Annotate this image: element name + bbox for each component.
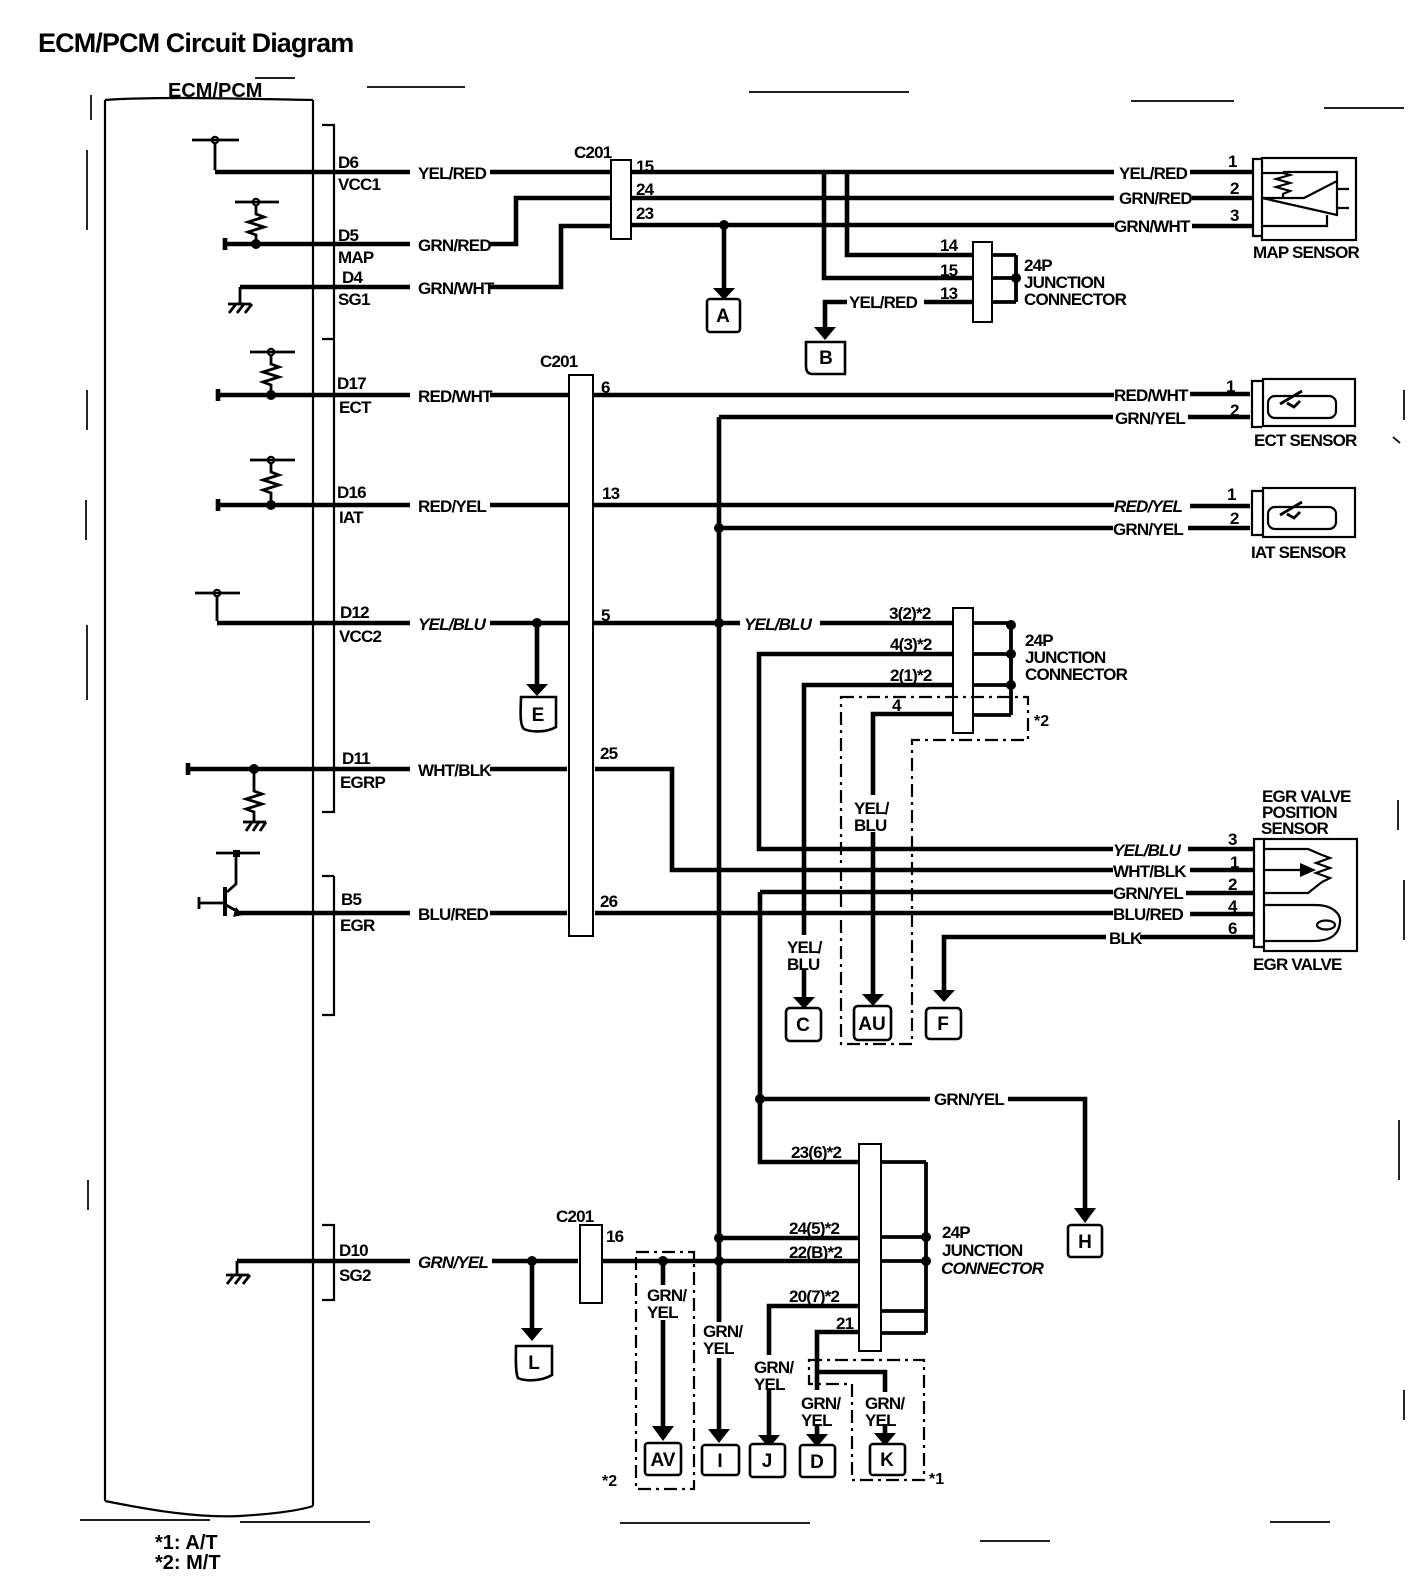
svg-text:RED/YEL: RED/YEL (1114, 497, 1182, 516)
wire 4(3)*2 YEL/BLU to EGR pin 3 (759, 654, 1253, 849)
ground SG2 (226, 1261, 250, 1284)
node E junction (532, 618, 542, 628)
svg-text:6: 6 (1228, 919, 1237, 938)
junction connector 24P (bottom) (859, 1144, 881, 1351)
svg-text:*2: M/T: *2: M/T (155, 1552, 221, 1574)
svg-text:SENSOR: SENSOR (1261, 819, 1329, 838)
junction bus right side (top) (992, 255, 1016, 302)
svg-text:24(5)*2: 24(5)*2 (789, 1219, 840, 1238)
svg-text:YEL/BLU: YEL/BLU (744, 615, 813, 634)
wire BLU/RED right of C201 pin 26 (595, 913, 1253, 914)
svg-text:1: 1 (1226, 377, 1235, 396)
svg-text:1: 1 (1230, 853, 1239, 872)
EGR valve solenoid (1264, 905, 1340, 941)
power symbol VCC2 (195, 593, 240, 621)
wire D17 RED/WHT (218, 389, 1250, 401)
connector box E (521, 697, 556, 731)
svg-text:C201: C201 (574, 143, 612, 162)
wire 2(1)*2 YEL/BLU down to C (804, 685, 955, 999)
EGR potentiometer wiper arrow (1264, 869, 1300, 871)
svg-text:*1: *1 (929, 1471, 944, 1488)
svg-text:GRN/WHT: GRN/WHT (418, 279, 495, 298)
svg-text:BLU/RED: BLU/RED (418, 905, 488, 924)
IAT sensor box (1263, 488, 1355, 537)
svg-text:SG2: SG2 (339, 1266, 371, 1285)
connector box D (800, 1445, 835, 1477)
wire GRN/RED right of C201 (629, 196, 1252, 201)
connector box K (870, 1444, 905, 1475)
svg-text:CONNECTOR: CONNECTOR (1025, 665, 1128, 684)
svg-text:J: J (762, 1451, 773, 1472)
node AV junction (658, 1256, 668, 1266)
svg-text:4(3)*2: 4(3)*2 (890, 635, 932, 654)
connector box AV (645, 1443, 681, 1475)
junction connector 24P (middle) (953, 608, 973, 733)
svg-text:ECM/PCM: ECM/PCM (168, 80, 262, 102)
svg-text:YEL/BLU: YEL/BLU (418, 615, 487, 634)
svg-text:RED/YEL: RED/YEL (418, 497, 486, 516)
node A junction on GRN/WHT (719, 220, 729, 230)
svg-text:*1: A/T: *1: A/T (155, 1532, 218, 1554)
wire 21 to D and K (817, 1332, 885, 1392)
MAP sensor internal resistor (1262, 172, 1337, 198)
connector box AU (854, 1006, 891, 1040)
wire D12 YEL/BLU (217, 621, 955, 626)
svg-text:4: 4 (892, 696, 902, 715)
svg-text:23(6)*2: 23(6)*2 (791, 1143, 842, 1162)
wire arrow to A (722, 227, 727, 288)
svg-text:H: H (1078, 1232, 1092, 1253)
power symbol VCC1 (192, 140, 239, 170)
ECT sensor connector bracket (1252, 381, 1262, 427)
svg-text:MAP SENSOR: MAP SENSOR (1253, 243, 1360, 262)
svg-text:CONNECTOR: CONNECTOR (941, 1259, 1045, 1278)
connector box C (786, 1008, 821, 1041)
wire arrow to D (815, 1424, 820, 1436)
svg-text:JUNCTION: JUNCTION (942, 1241, 1023, 1260)
svg-text:20(7)*2: 20(7)*2 (789, 1287, 840, 1306)
svg-text:C201: C201 (540, 352, 578, 371)
connector box I (702, 1445, 739, 1475)
svg-text:22(B)*2: 22(B)*2 (789, 1243, 842, 1262)
svg-text:L: L (528, 1353, 540, 1374)
svg-text:2: 2 (1230, 401, 1239, 420)
svg-text:YEL/BLU: YEL/BLU (1113, 841, 1182, 860)
wire D5 GRN/RED (225, 198, 613, 250)
EGR valve box (1264, 839, 1357, 951)
svg-text:IAT: IAT (339, 508, 364, 527)
dash-dot box *1 (around K) (809, 1360, 924, 1480)
svg-text:WHT/BLK: WHT/BLK (418, 761, 492, 780)
svg-text:GRN/YEL: GRN/YEL (1113, 520, 1183, 539)
svg-text:D16: D16 (337, 483, 366, 502)
svg-text:4: 4 (1228, 897, 1238, 916)
svg-text:2: 2 (1230, 509, 1239, 528)
svg-text:13: 13 (940, 284, 958, 303)
wire arrow to AV (661, 1261, 666, 1427)
wire junction pin 13 YEL/RED to B (825, 302, 975, 328)
junction bus right side (middle) (973, 623, 1011, 715)
svg-text:15: 15 (940, 261, 958, 280)
resistor R2 (ECT pull-up) (250, 352, 295, 395)
connector box B (806, 342, 845, 374)
svg-text:D11: D11 (342, 749, 370, 768)
svg-text:F: F (937, 1014, 949, 1035)
svg-text:24: 24 (636, 180, 655, 199)
wire arrow to L (530, 1263, 535, 1329)
svg-text:EGR: EGR (340, 916, 375, 935)
svg-text:AV: AV (651, 1450, 676, 1471)
wire arrow to K (883, 1424, 888, 1435)
connector box F (926, 1008, 961, 1039)
svg-text:D12: D12 (340, 603, 369, 622)
connector C201 (bottom) (580, 1225, 602, 1303)
svg-text:WHT/BLK: WHT/BLK (1113, 862, 1187, 881)
svg-text:YEL/RED: YEL/RED (1119, 164, 1188, 183)
svg-text:GRN/WHT: GRN/WHT (1114, 217, 1191, 236)
svg-text:D17: D17 (337, 374, 366, 393)
resistor R1 (MAP pull-up) (235, 202, 279, 244)
svg-text:6: 6 (601, 378, 610, 397)
wire GRN/YEL to H (760, 1099, 1085, 1209)
svg-text:D: D (810, 1452, 824, 1473)
ground SG1 (228, 287, 252, 313)
svg-text:14: 14 (940, 236, 959, 255)
node GRN/YEL bus to IAT pin 2 (714, 523, 724, 533)
ECM/PCM box (105, 98, 313, 1516)
wire B5 BLU/RED (240, 911, 567, 916)
node resistor R4 junction (249, 764, 259, 774)
svg-text:*2: *2 (602, 1473, 617, 1490)
MAP sensor internal op-amp (1262, 181, 1349, 215)
MAP sensor connector bracket (1253, 159, 1263, 236)
svg-text:25: 25 (600, 744, 618, 763)
svg-text:D10: D10 (339, 1241, 368, 1260)
wire WHT/BLK right of C201 pin 25 (595, 769, 1253, 870)
svg-text:VCC2: VCC2 (339, 627, 381, 646)
svg-text:E: E (532, 705, 545, 726)
svg-text:16: 16 (606, 1227, 624, 1246)
wire D6 YEL/RED (215, 170, 1252, 175)
GRN/YEL bus vertical (717, 417, 722, 1322)
svg-text:GRN/RED: GRN/RED (418, 236, 491, 255)
svg-text:BLU: BLU (854, 816, 887, 835)
wire GRN/WHT right of C201 (629, 225, 1252, 226)
svg-text:YEL: YEL (647, 1303, 678, 1322)
node GRN/YEL H branch (755, 1094, 765, 1104)
svg-text:5: 5 (601, 606, 610, 625)
wire YEL/RED branch to junction pin 15 (824, 172, 975, 278)
svg-text:D6: D6 (338, 153, 358, 172)
wire D4 GRN/WHT (240, 226, 613, 287)
svg-text:AU: AU (858, 1014, 885, 1035)
svg-text:YEL: YEL (703, 1339, 734, 1358)
svg-text:13: 13 (602, 484, 620, 503)
svg-text:C201: C201 (556, 1207, 594, 1226)
svg-text:EGR VALVE: EGR VALVE (1253, 955, 1342, 974)
ECT sensor thermistor (1268, 396, 1336, 418)
svg-text:26: 26 (600, 892, 618, 911)
ECT sensor box (1263, 379, 1355, 426)
node YEL/BLU bus crossing (714, 618, 724, 628)
svg-text:GRN/YEL: GRN/YEL (1115, 409, 1185, 428)
MAP sensor pin3 internal wire (1262, 215, 1327, 226)
svg-text:2: 2 (1228, 875, 1237, 894)
svg-text:VCC1: VCC1 (338, 175, 380, 194)
wire GRN/YEL to EGR pin 2 (760, 892, 1253, 893)
connector box L (516, 1346, 552, 1380)
svg-text:15: 15 (636, 157, 654, 176)
wire 20(7)*2 down to J (769, 1306, 861, 1436)
wire YEL/RED branch to junction pin 14 (847, 172, 975, 255)
svg-text:GRN/YEL: GRN/YEL (934, 1090, 1004, 1109)
svg-text:YEL: YEL (754, 1375, 785, 1394)
wire GRN/YEL vertical to junction 23(6) (760, 892, 861, 1162)
svg-text:EGRP: EGRP (340, 773, 385, 792)
svg-text:CONNECTOR: CONNECTOR (1024, 290, 1127, 309)
svg-text:3(2)*2: 3(2)*2 (889, 604, 931, 623)
svg-text:YEL/RED: YEL/RED (849, 293, 918, 312)
svg-text:YEL: YEL (865, 1411, 896, 1430)
svg-text:SG1: SG1 (338, 290, 370, 309)
svg-text:BLU: BLU (787, 955, 820, 974)
wire GRN/YEL 22(B)*2 (602, 1259, 861, 1264)
svg-text:D4: D4 (342, 268, 363, 287)
svg-text:RED/WHT: RED/WHT (418, 387, 493, 406)
svg-text:MAP: MAP (338, 248, 374, 267)
junction connector 24P (top) (973, 242, 992, 322)
svg-text:GRN/YEL: GRN/YEL (418, 1253, 488, 1272)
wire D16 RED/YEL (218, 499, 1250, 511)
svg-text:21: 21 (836, 1314, 854, 1333)
node bus to 24(5)*2 (714, 1233, 724, 1243)
svg-text:GRN/RED: GRN/RED (1119, 189, 1192, 208)
wire 24(5)*2 (719, 1236, 861, 1241)
wire BLK to F (944, 937, 1253, 991)
pin bracket rail (322, 125, 334, 1300)
svg-text:ECT SENSOR: ECT SENSOR (1254, 431, 1357, 450)
node bus crossing SG2 (714, 1256, 724, 1266)
svg-text:1: 1 (1228, 152, 1237, 171)
svg-text:ECT: ECT (339, 398, 372, 417)
svg-text:I: I (717, 1451, 722, 1472)
connector box H (1068, 1225, 1102, 1257)
connector C201 (middle tall) (569, 375, 593, 936)
svg-text:GRN/YEL: GRN/YEL (1113, 884, 1183, 903)
wire GRN/YEL to ECT pin 2 (719, 415, 1250, 420)
svg-text:YEL/RED: YEL/RED (418, 164, 487, 183)
dash-dot box *2 (M/T section middle) (841, 697, 1028, 1044)
connector box A (707, 299, 740, 332)
junction bus right side (bottom) (881, 1162, 926, 1333)
svg-text:K: K (880, 1450, 894, 1471)
svg-text:1: 1 (1227, 485, 1236, 504)
svg-text:BLK: BLK (1109, 929, 1143, 948)
transistor Q1 collector supply (216, 853, 260, 892)
svg-text:*2: *2 (1034, 713, 1049, 730)
EGR sensor connector bracket (1254, 839, 1263, 947)
wire GRN/YEL to IAT pin 2 (719, 526, 1250, 531)
svg-text:3: 3 (1230, 206, 1239, 225)
wire arrow to I (GRN/YEL bus end) (717, 1261, 722, 1430)
dash-dot box *2 (around AV) (636, 1252, 694, 1489)
wire D11 WHT/BLK (188, 763, 567, 775)
EGR position sensor potentiometer (1264, 849, 1330, 893)
connector box J (750, 1444, 785, 1477)
svg-text:B5: B5 (341, 890, 361, 909)
connector C201 (top) (611, 160, 631, 239)
wire arrow to E (535, 625, 540, 685)
MAP sensor box (1262, 158, 1356, 240)
IAT sensor thermistor (1268, 507, 1336, 529)
node L junction (527, 1256, 537, 1266)
wire D10 GRN/YEL (SG2) (237, 1259, 578, 1264)
svg-text:RED/WHT: RED/WHT (1114, 386, 1189, 405)
svg-text:23: 23 (636, 204, 654, 223)
resistor R3 (IAT pull-up) (250, 460, 295, 505)
svg-text:D5: D5 (338, 226, 358, 245)
svg-text:IAT SENSOR: IAT SENSOR (1251, 543, 1346, 562)
svg-text:2(1)*2: 2(1)*2 (890, 666, 932, 685)
svg-text:ECM/PCM Circuit Diagram: ECM/PCM Circuit Diagram (38, 28, 353, 58)
transistor Q1 (223, 887, 227, 916)
svg-text:24P: 24P (942, 1223, 970, 1242)
svg-text:A: A (716, 306, 730, 327)
svg-text:B: B (819, 348, 833, 369)
IAT sensor connector bracket (1252, 491, 1262, 535)
svg-text:C: C (796, 1015, 810, 1036)
svg-text:3: 3 (1228, 830, 1237, 849)
wire 4 YEL/BLU down to AU (873, 714, 955, 996)
ground below R4 (243, 822, 266, 831)
svg-text:BLU/RED: BLU/RED (1113, 905, 1183, 924)
resistor R4 (EGRP) (246, 769, 262, 822)
svg-text:2: 2 (1230, 179, 1239, 198)
